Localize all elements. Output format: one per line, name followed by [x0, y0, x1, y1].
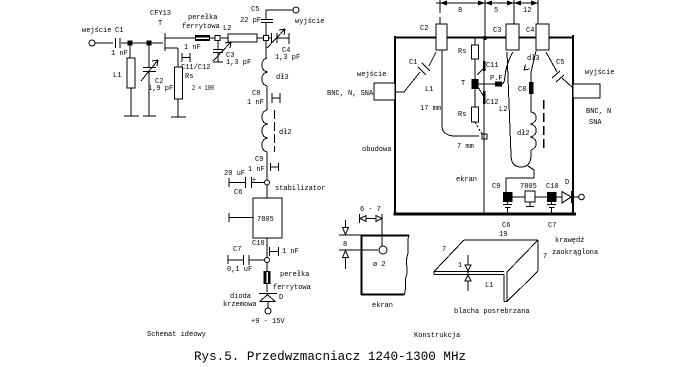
svg-text:C11: C11 [486, 62, 499, 70]
svg-text:stabilizator: stabilizator [275, 185, 325, 193]
svg-text:D: D [565, 179, 569, 187]
svg-text:19: 19 [499, 231, 507, 239]
svg-text:wyjście: wyjście [295, 18, 324, 26]
svg-text:5: 5 [494, 7, 498, 15]
svg-text:ø 2: ø 2 [373, 261, 386, 269]
svg-text:Schemat ideowy: Schemat ideowy [147, 331, 206, 339]
svg-text:T: T [158, 20, 162, 28]
svg-text:ekran: ekran [456, 176, 477, 184]
svg-text:7 mm: 7 mm [457, 143, 474, 151]
svg-text:C10: C10 [252, 240, 265, 248]
svg-text:dł3: dł3 [276, 74, 289, 82]
svg-text:wejście: wejście [82, 27, 111, 35]
svg-text:7805: 7805 [257, 216, 274, 224]
svg-text:1,3 pF: 1,3 pF [226, 59, 251, 67]
svg-text:L2: L2 [223, 25, 231, 33]
svg-text:1 nF: 1 nF [247, 99, 264, 107]
svg-text:SNA: SNA [589, 119, 602, 127]
svg-text:8: 8 [458, 7, 462, 15]
svg-text:C5: C5 [556, 59, 564, 67]
svg-text:BNC, N: BNC, N [586, 108, 611, 116]
svg-text:CFY13: CFY13 [150, 10, 171, 18]
svg-text:C10: C10 [546, 183, 559, 191]
svg-text:dł3: dł3 [527, 55, 540, 63]
svg-text:Rys.5. Przedwzmacniacz 1240-13: Rys.5. Przedwzmacniacz 1240-1300 MHz [194, 350, 466, 364]
svg-text:1,3 pF: 1,3 pF [275, 54, 300, 62]
svg-text:L1: L1 [113, 72, 121, 80]
svg-text:C7: C7 [233, 246, 241, 254]
svg-text:0,1 uF: 0,1 uF [227, 266, 252, 274]
svg-text:dioda: dioda [230, 293, 251, 301]
svg-text:ferrytowa: ferrytowa [182, 23, 220, 31]
svg-text:C1: C1 [409, 59, 417, 67]
svg-text:1 nF: 1 nF [184, 44, 201, 52]
svg-text:1: 1 [458, 262, 462, 270]
svg-text:zaokrąglona: zaokrąglona [552, 249, 598, 257]
svg-text:C6: C6 [502, 222, 510, 230]
svg-text:Rs: Rs [185, 73, 193, 81]
svg-text:C8: C8 [518, 86, 526, 94]
svg-text:+: + [252, 177, 256, 185]
svg-text:8: 8 [343, 241, 347, 249]
svg-text:dł2: dł2 [279, 129, 292, 137]
svg-text:C12: C12 [486, 99, 499, 107]
svg-text:Rs: Rs [458, 111, 466, 119]
svg-text:C4: C4 [526, 27, 534, 35]
svg-text:perełka: perełka [280, 271, 309, 279]
svg-text:1 nF: 1 nF [248, 166, 265, 174]
svg-text:C11/C12: C11/C12 [181, 64, 210, 72]
svg-text:ferrytowa: ferrytowa [273, 284, 311, 292]
svg-text:C8: C8 [252, 90, 260, 98]
svg-text:7805: 7805 [520, 183, 537, 191]
svg-text:1 nF: 1 nF [282, 248, 299, 256]
svg-text:C9: C9 [255, 156, 263, 164]
svg-text:wyjście: wyjście [585, 69, 614, 77]
svg-text:Rs: Rs [458, 48, 466, 56]
svg-text:P.F.: P.F. [490, 75, 507, 83]
svg-text:C7: C7 [548, 222, 556, 230]
svg-text:C5: C5 [251, 6, 259, 14]
svg-text:C9: C9 [492, 183, 500, 191]
svg-text:D: D [279, 294, 283, 302]
svg-text:20 uF: 20 uF [224, 170, 245, 178]
svg-text:ekran: ekran [372, 302, 393, 310]
svg-text:Konstrukcja: Konstrukcja [414, 332, 460, 340]
svg-text:C3: C3 [493, 27, 501, 35]
svg-text:6 - 7: 6 - 7 [360, 206, 381, 214]
svg-text:12: 12 [523, 7, 531, 15]
svg-text:22 pF: 22 pF [240, 17, 261, 25]
svg-text:dł2: dł2 [517, 130, 530, 138]
svg-text:1 nF: 1 nF [111, 50, 128, 58]
svg-text:L1: L1 [485, 282, 493, 290]
svg-text:krawędź: krawędź [555, 237, 584, 245]
svg-text:C1: C1 [115, 27, 123, 35]
svg-text:C2: C2 [420, 25, 428, 33]
svg-text:wejście: wejście [357, 71, 386, 79]
svg-text:L2: L2 [499, 106, 507, 114]
svg-text:L1: L1 [425, 86, 433, 94]
svg-text:2 × 100: 2 × 100 [192, 85, 214, 93]
svg-text:perełka: perełka [188, 14, 217, 22]
svg-text:obudowa: obudowa [362, 146, 391, 154]
svg-text:T: T [461, 80, 465, 88]
svg-text:17 mm: 17 mm [420, 105, 441, 113]
svg-text:7: 7 [543, 253, 547, 261]
svg-text:+9 - 15V: +9 - 15V [251, 318, 285, 326]
svg-text:7: 7 [442, 246, 446, 254]
svg-text:blacha posrebrzana: blacha posrebrzana [454, 308, 530, 316]
svg-text:krzemowa: krzemowa [223, 301, 257, 309]
svg-text:1,9 pF: 1,9 pF [148, 85, 173, 93]
svg-text:BNC, N, SNA: BNC, N, SNA [327, 90, 374, 98]
svg-text:C6: C6 [234, 189, 242, 197]
